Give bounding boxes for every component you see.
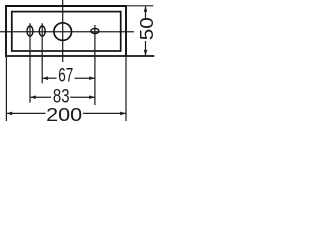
dim 50 top extension line bbox=[127, 5, 153, 7]
slot 1 bbox=[27, 26, 33, 36]
small mounting hole crosshair line bbox=[94, 25, 96, 105]
svg-text:67: 67 bbox=[58, 66, 73, 87]
knockout hole circle bbox=[54, 23, 72, 41]
dim 200 left arrow bbox=[7, 112, 13, 116]
dim 83 line left segment bbox=[30, 96, 51, 98]
dim 83 line right segment bbox=[70, 96, 95, 98]
dim 200 left extension line bbox=[5, 56, 7, 121]
dim 200 right arrow bbox=[120, 112, 126, 116]
slot 2 centerline bbox=[41, 23, 43, 83]
vertical centerline through circle bbox=[62, 0, 64, 62]
fixture outer body outline bbox=[6, 6, 126, 56]
horizontal centerline bbox=[0, 31, 134, 33]
inner panel rectangle bbox=[12, 12, 121, 51]
dim 200 right extension line bbox=[125, 56, 127, 121]
dim 50 down arrow bbox=[144, 50, 148, 56]
mounting surface line (bottom edge, extended right) bbox=[5, 55, 154, 57]
dim 200 line right segment bbox=[83, 112, 126, 114]
dim 83 right arrow bbox=[89, 95, 95, 99]
dim 67 line right segment bbox=[75, 77, 96, 79]
dim 83 left arrow bbox=[30, 95, 36, 99]
slot 1 centerline bbox=[29, 23, 31, 102]
dim 50 line upper segment bbox=[145, 6, 147, 20]
dim 50 up arrow bbox=[144, 6, 148, 12]
dim 67 line left segment bbox=[42, 77, 56, 79]
dim 50 line lower segment bbox=[145, 41, 147, 55]
dim 200 line left segment bbox=[6, 112, 45, 114]
dim 67 right arrow bbox=[89, 76, 95, 80]
slot 2 bbox=[39, 26, 45, 36]
small mounting hole bbox=[91, 29, 99, 34]
svg-text:50: 50 bbox=[136, 17, 157, 40]
dim 67 left arrow bbox=[42, 76, 48, 80]
svg-text:200: 200 bbox=[46, 104, 82, 125]
